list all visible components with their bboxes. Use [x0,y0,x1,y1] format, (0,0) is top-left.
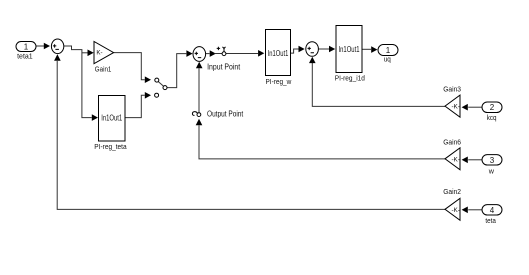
svg-text:K-: K- [96,51,102,57]
svg-text:PI-reg_teta: PI-reg_teta [94,142,127,151]
svg-text:Gain1: Gain1 [95,65,112,74]
svg-text:Input Point: Input Point [207,62,241,72]
svg-text:In1Out1: In1Out1 [339,45,360,54]
svg-text:In1Out1: In1Out1 [268,49,289,58]
svg-text:teta: teta [485,216,496,225]
svg-text:kcq: kcq [487,113,497,122]
svg-text:In1Out1: In1Out1 [101,113,122,122]
svg-text:w: w [488,166,495,175]
svg-text:Gain2: Gain2 [443,187,461,196]
svg-text:-K-: -K- [451,104,460,111]
svg-text:-K-: -K- [451,156,460,163]
svg-text:uq: uq [384,55,391,64]
svg-text:Gain6: Gain6 [443,138,461,147]
svg-text:4: 4 [490,206,495,215]
svg-text:2: 2 [490,103,495,112]
svg-text:3: 3 [490,156,495,165]
svg-text:Output Point: Output Point [207,109,244,118]
svg-text:PI-reg_i1d: PI-reg_i1d [335,74,365,83]
svg-text:-K-: -K- [451,207,460,214]
svg-text:teta1: teta1 [17,52,33,61]
svg-text:PI-reg_w: PI-reg_w [266,77,292,86]
svg-text:1: 1 [24,42,29,51]
svg-text:Gain3: Gain3 [443,84,461,93]
